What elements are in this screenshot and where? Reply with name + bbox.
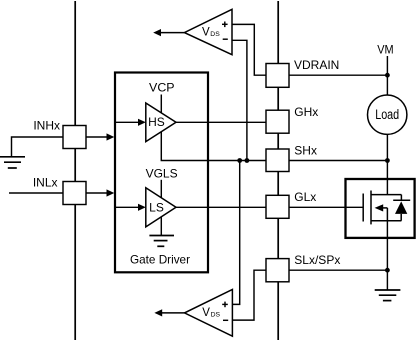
op-amp VDS monitor bottom xyxy=(154,290,232,337)
svg-text:INLx: INLx xyxy=(33,175,58,189)
wire HS source ref to SHx xyxy=(161,132,266,161)
svg-text:LS: LS xyxy=(149,200,164,214)
op-amp VDS monitor top xyxy=(153,9,232,54)
transistor Q1 (external NMOS) xyxy=(363,191,401,225)
wire VDRAIN to VM xyxy=(289,74,388,76)
junction SHx / bottom VDS + xyxy=(237,158,242,163)
wire VCP stub xyxy=(160,95,162,113)
ground (power stage) xyxy=(375,290,401,301)
svg-text:VDRAIN: VDRAIN xyxy=(294,58,339,72)
svg-text:DS: DS xyxy=(211,312,221,319)
pad GHx xyxy=(266,110,289,133)
junction SLx/SPx / source / ground xyxy=(385,268,390,273)
wire INHx to ground xyxy=(12,137,64,156)
wire LS gnd stub xyxy=(160,217,162,235)
ground (LS driver) xyxy=(149,236,174,247)
pad SHx xyxy=(266,149,289,172)
wire SHx to load node xyxy=(289,160,388,162)
gate driver box U1 xyxy=(115,73,208,273)
wire source down to SLx node and ground xyxy=(386,221,388,290)
wire GLx to FET gate xyxy=(289,206,363,208)
wire INLx input xyxy=(9,192,63,194)
svg-text:HS: HS xyxy=(148,115,165,129)
svg-text:GLx: GLx xyxy=(294,190,316,204)
pad INLx xyxy=(63,182,86,205)
wire bottom VDS + to SHx node xyxy=(232,161,239,305)
pad INHx xyxy=(63,126,86,149)
junction SHx / top VDS - xyxy=(245,158,250,163)
svg-text:INHx: INHx xyxy=(33,119,60,133)
wire HS output to GHx xyxy=(176,121,266,123)
pad SLx/SPx xyxy=(266,259,289,282)
wire INHx pad to gate driver (arrow) xyxy=(86,133,114,140)
body arrow of Q1 xyxy=(375,204,384,211)
svg-text:Load: Load xyxy=(375,107,399,122)
wire drain down into FET xyxy=(386,161,388,195)
svg-text:V: V xyxy=(202,27,210,39)
wire top VDS - to SHx node xyxy=(232,40,247,160)
svg-text:SHx: SHx xyxy=(294,144,317,158)
svg-text:SLx/SPx: SLx/SPx xyxy=(294,253,340,267)
body diode of Q1 xyxy=(393,195,410,221)
svg-text:DS: DS xyxy=(210,31,220,38)
wire box edge to HS input (arrow) xyxy=(116,119,146,126)
pad VDRAIN xyxy=(266,64,289,88)
junction VM / VDRAIN xyxy=(385,73,390,78)
wire load to SHx node xyxy=(386,134,388,160)
wire VM down through load xyxy=(386,56,388,95)
right device boundary rail xyxy=(277,1,279,340)
op-amp LS driver xyxy=(146,188,176,227)
svg-text:V: V xyxy=(202,307,210,319)
svg-text:VGLS: VGLS xyxy=(146,167,178,181)
op-amp HS driver xyxy=(146,103,176,142)
svg-text:VM: VM xyxy=(377,43,393,57)
load xyxy=(368,95,407,134)
wire INLx pad to gate driver (arrow) xyxy=(86,189,114,196)
junction SHx / load / FET drain xyxy=(385,158,390,163)
pad GLx xyxy=(266,195,289,218)
ground (INHx reference) xyxy=(0,157,25,168)
FET box xyxy=(346,179,415,238)
svg-text:VCP: VCP xyxy=(149,81,175,95)
left device boundary rail xyxy=(74,1,76,340)
svg-text:Gate Driver: Gate Driver xyxy=(130,252,190,266)
wire top VDS + to VDRAIN xyxy=(232,24,266,75)
wire VGLS stub xyxy=(160,180,162,198)
wire LS output to GLx xyxy=(176,206,266,208)
wire box edge to LS input (arrow) xyxy=(116,204,146,211)
wire SLx/SPx to source node xyxy=(289,269,388,271)
svg-text:GHx: GHx xyxy=(294,105,318,119)
wire bottom VDS - to SLx/SPx xyxy=(232,270,266,320)
